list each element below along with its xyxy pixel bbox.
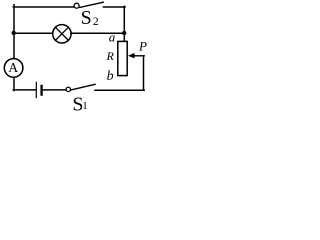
wire right upper vertical to rheostat (123, 6, 125, 42)
rheostat slider arrowhead (128, 53, 135, 59)
lamp X diagonal 1 (55, 27, 68, 40)
lamp L1 circle (53, 25, 71, 43)
wire right vertical from slider (143, 56, 145, 91)
wire battery to S1 (43, 89, 66, 91)
svg-text:a: a (109, 30, 116, 45)
wire top-right horizontal (104, 6, 126, 8)
svg-text:1: 1 (82, 100, 88, 112)
rheostat R box (118, 41, 127, 75)
wire top-left horizontal (13, 6, 73, 8)
switch S2 lever (80, 2, 103, 7)
wire left vertical lower (13, 77, 15, 90)
wire lamp row left (14, 32, 53, 34)
svg-text:P: P (138, 39, 147, 54)
wire bottom-left horizontal (13, 89, 35, 91)
ammeter A1 circle (4, 59, 23, 78)
wire left vertical upper (13, 5, 15, 59)
battery short plate (40, 86, 42, 95)
wire lamp row right (71, 32, 124, 34)
wire bottom-right horizontal (95, 89, 144, 91)
junction node dot left (12, 31, 16, 35)
svg-text:b: b (107, 69, 114, 84)
svg-text:2: 2 (93, 16, 99, 28)
svg-text:A: A (8, 60, 18, 75)
switch S1 pivot circle (66, 87, 70, 91)
rheostat slider shaft (133, 55, 144, 57)
switch S1 lever (71, 84, 95, 90)
svg-text:S: S (81, 7, 92, 29)
junction node dot a (122, 31, 126, 35)
battery long plate (35, 82, 37, 97)
lamp X diagonal 2 (55, 27, 68, 40)
svg-text:R: R (106, 49, 115, 63)
switch S2 pivot circle (74, 3, 79, 8)
